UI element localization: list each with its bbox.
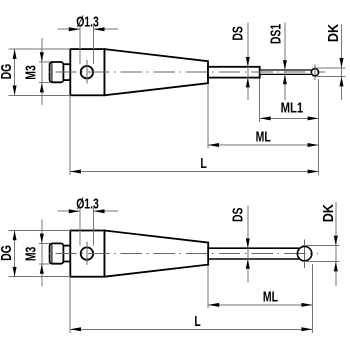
dimension ML [208, 79, 319, 175]
ball center mark [314, 64, 316, 80]
cross hole center mark [86, 60, 88, 83]
svg-text:DG: DG [0, 245, 14, 261]
holder body block [70, 231, 104, 277]
svg-text:L: L [200, 156, 207, 172]
svg-text:DG: DG [0, 64, 14, 80]
stem DS [208, 67, 260, 78]
dimension DK [302, 202, 340, 286]
dimension L [70, 278, 312, 333]
centerline [46, 71, 325, 73]
ball tip [297, 246, 311, 260]
stem DS1 [260, 70, 312, 74]
cross hole [81, 66, 93, 78]
svg-text:DS: DS [230, 26, 246, 40]
dimension DG [0, 231, 70, 277]
holder body block [70, 49, 104, 95]
thread M3 [50, 243, 64, 263]
cross hole [81, 247, 93, 259]
dimension ML [208, 264, 312, 333]
svg-text:DS: DS [230, 208, 246, 222]
svg-text:Ø1.3: Ø1.3 [76, 14, 99, 30]
dimension Ø1.3 [57, 196, 118, 246]
ball tip [311, 69, 318, 76]
centerline [46, 253, 318, 255]
dimension DS1 [268, 23, 287, 100]
dimension DG [0, 49, 70, 95]
taper cone [105, 231, 209, 277]
thread M3 [50, 62, 64, 82]
thread neck [63, 64, 70, 80]
svg-text:DS1: DS1 [268, 24, 284, 44]
svg-text:L: L [194, 313, 201, 329]
dimension DK [313, 24, 346, 100]
svg-text:M3: M3 [23, 65, 39, 79]
svg-text:ML: ML [256, 129, 271, 145]
svg-text:DK: DK [320, 204, 336, 222]
ball center mark [304, 239, 306, 267]
taper cone [105, 49, 209, 95]
svg-text:DK: DK [325, 24, 341, 42]
dimension ML1 [260, 79, 319, 122]
dimension DS [230, 206, 250, 283]
svg-text:ML1: ML1 [281, 99, 304, 116]
svg-text:Ø1.3: Ø1.3 [76, 196, 99, 212]
cross hole center mark [86, 242, 88, 266]
dimension Ø1.3 [57, 14, 118, 64]
svg-text:ML: ML [263, 289, 278, 305]
dimension M3 [23, 38, 50, 105]
dimension M3 [23, 219, 50, 286]
stem DS [208, 248, 299, 259]
thread neck [63, 246, 70, 262]
dimension L [70, 96, 319, 175]
svg-text:M3: M3 [23, 247, 39, 261]
dimension DS [230, 23, 250, 100]
